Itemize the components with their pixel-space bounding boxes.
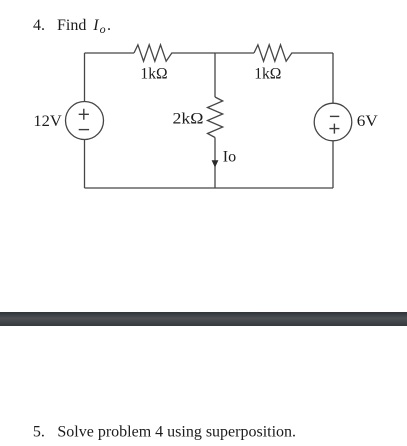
wire left branch upper: [84, 53, 86, 102]
svg-text:1kΩ: 1kΩ: [140, 65, 167, 82]
wire top-middle segment: [175, 52, 254, 54]
V1 plus polarity mark: [79, 109, 89, 120]
svg-text:o: o: [100, 22, 106, 36]
svg-text:1kΩ: 1kΩ: [254, 65, 281, 82]
resistor R2 1kOhm (top-right, horizontal zigzag): [254, 45, 295, 61]
problem 4 heading text: [33, 17, 111, 36]
svg-text:Io: Io: [223, 149, 237, 166]
svg-text:12V: 12V: [33, 113, 62, 130]
V1 minus polarity mark: [79, 129, 89, 131]
wire right branch lower: [332, 141, 334, 188]
node A (top middle junction) and wire middle branch upper: [214, 53, 216, 97]
svg-text:Find: Find: [57, 17, 86, 34]
svg-text:5.: 5.: [33, 423, 45, 440]
wire right branch upper: [332, 53, 334, 103]
V2 plus polarity mark: [329, 124, 339, 134]
current Io arrow head: [212, 160, 219, 167]
svg-text:Solve problem 4 using superpos: Solve problem 4 using superposition.: [57, 423, 296, 440]
svg-text:.: .: [107, 17, 111, 34]
svg-text:4.: 4.: [33, 17, 45, 34]
resistor R3 2kOhm (middle, vertical zigzag): [208, 97, 223, 138]
wire top-right segment: [295, 52, 333, 54]
resistor R1 1kOhm (top-left, horizontal zigzag): [134, 45, 175, 61]
voltage source V2 6V (circle): [314, 103, 352, 141]
svg-text:2kΩ: 2kΩ: [173, 111, 204, 128]
wire middle branch lower: [214, 138, 216, 189]
wire bottom segment: [85, 187, 334, 189]
svg-text:I: I: [92, 17, 99, 34]
problem 5 text: [33, 423, 296, 440]
page divider dark bar: [0, 312, 407, 326]
voltage source V1 12V (circle): [66, 102, 104, 140]
svg-text:6V: 6V: [357, 113, 379, 130]
V2 minus polarity mark: [330, 115, 339, 117]
wire left branch lower: [84, 140, 86, 189]
wire top-left segment: [85, 52, 135, 54]
